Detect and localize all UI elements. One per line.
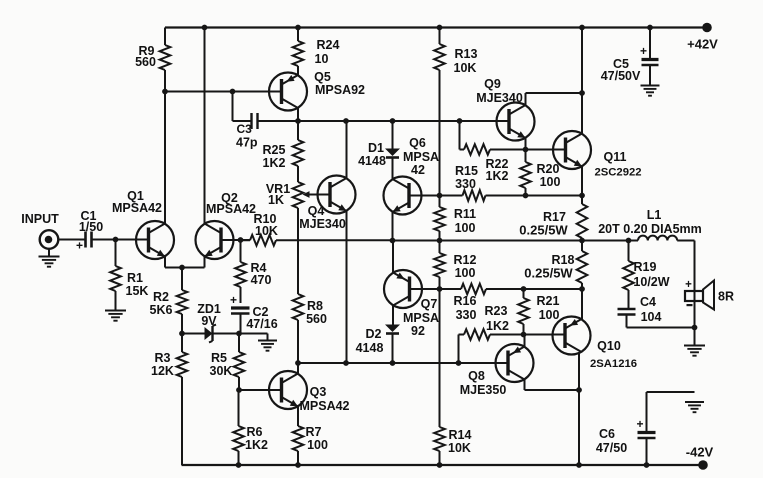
label Q2 [206,191,256,216]
node Q8 collector / Q10 collector column [576,387,582,393]
wire Q11 collector up to top rail [581,28,583,134]
svg-text:1K2: 1K2 [486,319,509,333]
svg-text:20T 0.20 DIA5mm: 20T 0.20 DIA5mm [598,222,702,236]
wire to C3 [233,120,252,122]
wire R9 node down to Q1 collector [164,92,166,224]
wire Q5 collector down [297,108,299,121]
svg-text:10K: 10K [255,224,278,238]
label Q10 [590,339,637,370]
label R25 value [263,143,286,170]
node speaker ground [692,325,698,331]
speaker 8R [685,279,714,328]
svg-text:MPSA42: MPSA42 [299,399,349,413]
wire Q11 emitter down [581,167,583,196]
node Q10 collector / bottom rail [576,462,582,468]
node Q11 emitter / R17 [579,193,585,199]
wire R9 node to Q5 base [165,91,282,93]
label R11 value [454,207,476,235]
wire D2 anode to lower bias rail [392,335,394,364]
svg-text:9V: 9V [201,314,217,328]
label C3 value [236,122,258,149]
label R24 value [315,38,340,66]
wire output rail middle [393,240,583,242]
node C6 / bottom rail [644,462,650,468]
svg-text:+: + [636,417,643,431]
node ZD1 / C2 / R5 / ground stub [236,331,242,337]
svg-text:R12: R12 [454,253,477,267]
node R6 / bottom rail [236,462,242,468]
wire D1 cathode to Q6 collector [392,159,394,180]
transistor Q11 [553,131,591,169]
svg-text:15K: 15K [126,284,149,298]
svg-text:0.25/5W: 0.25/5W [524,265,573,280]
label R8 value [306,299,327,326]
svg-text:R25: R25 [263,143,286,157]
wire R12 node down to R14 [439,289,441,427]
node R16 / R21 [521,286,527,292]
wire Q9 collector up and right [526,93,583,105]
label R1 value [126,271,149,298]
resistor R16 [440,288,462,290]
svg-text:D2: D2 [366,327,382,341]
svg-text:4148: 4148 [358,154,386,168]
node Q2 base / R4 / R10 [238,237,244,243]
svg-text:5K6: 5K6 [150,303,173,317]
node R9 / Q5 base line / Q1 collector [162,89,168,95]
wire upper bias line [298,120,510,122]
terminal -42V [698,460,708,470]
resistor R3 [181,334,183,353]
svg-text:+42V: +42V [687,36,718,51]
svg-text:1K2: 1K2 [263,156,286,170]
potentiometer VR1 [293,182,304,208]
wire Q8 emitter up [524,335,526,347]
label R19 value [633,260,669,289]
node R2 / ZD1 / R3 [179,331,185,337]
resistor R17 [581,196,583,205]
label Q3 [299,385,349,413]
resistor R10 [241,239,251,241]
node input / R1 [113,237,119,243]
label R9 value [135,44,156,69]
svg-text:R24: R24 [317,38,340,52]
svg-text:MPSA: MPSA [403,150,439,164]
node bias line / R22 drop [457,118,463,124]
wire C3 drop [232,92,234,122]
svg-text:MPSA42: MPSA42 [206,202,256,216]
label C4 value [640,295,661,324]
svg-text:Q5: Q5 [314,70,331,84]
node Q9 emitter / R20 / Q11 base [523,147,529,153]
svg-text:+: + [76,239,83,253]
svg-text:+: + [685,279,692,291]
label R17 value [519,210,568,238]
label Q4 [299,204,346,231]
node R17 / output rail / R18 [579,238,585,244]
wire output rail to L1 [582,240,638,242]
svg-text:Q9: Q9 [484,77,501,91]
label Q9 [476,77,523,105]
wire Q2 emitter down [204,257,206,268]
resistor R14 [434,427,445,451]
ground (input jack) [39,256,60,258]
resistor R12 [439,241,441,254]
svg-text:R23: R23 [485,304,508,318]
svg-text:10: 10 [315,52,329,66]
svg-text:R5: R5 [211,351,227,365]
label C6 value [596,427,627,455]
resistor R11 [439,196,441,208]
svg-text:100: 100 [539,308,560,322]
svg-text:47/50: 47/50 [596,441,627,455]
wire -42V bottom supply rail [182,464,704,466]
label Q7 [403,297,439,338]
svg-text:Q11: Q11 [604,150,627,164]
wire C3 to Q5 collector node [258,120,298,122]
svg-text:47/16: 47/16 [246,317,277,331]
terminal +42V [702,23,712,33]
node Q6 emitter / output rail [390,238,396,244]
svg-text:C3: C3 [237,122,253,136]
resistor R8 [293,294,304,320]
resistor R2 [181,268,183,291]
resistor R7 [293,426,304,451]
svg-text:MPSA: MPSA [403,311,439,325]
inductor L1 [638,236,677,241]
wire Q1 emitter to common node [165,267,205,269]
node top rail / R13 [437,25,443,31]
svg-text:MPSA42: MPSA42 [112,201,162,215]
svg-text:100: 100 [540,175,561,189]
ground (R1) [105,310,126,312]
svg-text:330: 330 [456,308,477,322]
svg-text:INPUT: INPUT [21,212,59,226]
node diff pair common emitters [179,265,185,271]
label R13 value [454,47,478,75]
node top rail / R24 [295,25,301,31]
transistor Q9 [497,103,535,141]
wire Q2 collector up to top rail [204,28,206,224]
node Q9 collector / Q11 collector column [579,90,585,96]
wire Q6 emitter down to output rail [392,212,394,241]
svg-text:1K2: 1K2 [245,438,268,452]
resistor R18 [581,241,583,252]
wire Q10 base lead [524,334,566,336]
svg-text:R19: R19 [634,260,657,274]
wire L1 to speaker corner [677,241,694,288]
svg-text:C6: C6 [599,427,615,441]
label R20 value [537,162,561,189]
svg-text:2SC2922: 2SC2922 [594,166,641,178]
node R7 / bottom rail [295,462,301,468]
capacitor C4 [618,290,636,328]
svg-text:MJE340: MJE340 [299,217,346,231]
wire Q9 emitter down [525,138,527,150]
transistor Q5 [269,73,307,111]
svg-text:R21: R21 [537,294,560,308]
wire Q4 emitter down to lower bias rail [346,211,348,363]
label Q11 [594,150,641,178]
wire C2 node to ground [239,333,268,335]
resistor R4 [240,240,242,262]
label VR1 value [266,182,290,207]
svg-text:0.25/5W: 0.25/5W [519,222,568,237]
node top rail / C5 [647,25,653,31]
label R7 value [306,425,328,452]
resistor R24 [297,28,299,42]
svg-text:MJE350: MJE350 [460,383,507,397]
resistor R20 [525,150,527,163]
svg-text:8R: 8R [718,289,734,303]
svg-text:+: + [230,293,237,307]
diode D2 (1N4148) [385,325,400,334]
svg-text:42: 42 [411,163,425,177]
wire D1 anode [392,121,394,149]
wire Q7 base lead [410,288,440,290]
svg-text:100: 100 [307,438,328,452]
wire VR1 bottom to R8 [297,208,299,294]
svg-text:47/50V: 47/50V [601,69,641,83]
label Q8 [460,369,507,397]
svg-text:104: 104 [641,310,662,324]
svg-text:R15: R15 [455,164,478,178]
svg-text:Q6: Q6 [409,136,426,150]
node R5 / Q3 base [236,387,242,393]
transistor Q10 [553,317,591,355]
svg-text:330: 330 [455,177,476,191]
label D1 [358,141,386,168]
label D2 [356,327,384,355]
svg-text:560: 560 [135,55,156,69]
wire lower bias rail [298,362,508,364]
resistor R1 [115,240,117,267]
label R16 value [454,294,477,322]
transistor Q2 [196,221,234,259]
svg-text:470: 470 [251,273,272,287]
svg-text:Q10: Q10 [597,339,621,353]
svg-text:-42V: -42V [686,444,714,459]
label R6 value [245,425,268,452]
transistor Q7 [384,270,422,308]
wire C1 to Q1 base [92,239,142,241]
resistor R21 [523,289,525,298]
wire jack stem [48,249,50,256]
svg-text:100: 100 [455,266,476,280]
label R21 value [537,294,560,322]
svg-text:R13: R13 [455,47,478,61]
transistor Q4 [318,176,356,214]
resistor R13 [439,28,441,45]
resistor R6 [238,390,240,426]
wire Q2 base lead [221,239,241,241]
wire Q3 base lead [239,389,282,391]
node top rail / Q2 collector [202,25,208,31]
wire +42V top supply rail [165,26,707,28]
ground (C6) [685,401,704,403]
label R2 value [150,290,173,317]
wire Q10 emitter up to R18 node [581,289,583,319]
wire top rail left corner down to R9 [164,28,166,46]
capacitor C6 (electrolytic) [636,392,655,465]
label R12 value [454,253,477,280]
node R13 / Q6 base / R15 / R11 [437,193,443,199]
wire R23 drop [458,335,460,364]
svg-text:560: 560 [306,312,327,326]
node R23 drop / lower bias rail [456,360,462,366]
node D2 / lower bias rail [390,360,396,366]
capacitor C3 [252,113,258,129]
svg-text:92: 92 [411,324,425,338]
svg-text:MPSA92: MPSA92 [315,83,365,97]
wire output rail (feedback line) [241,239,251,241]
node bias line / D1 [390,118,396,124]
label R22 value [486,157,509,183]
wire Q6 base lead [409,195,440,197]
label Q6 [403,136,439,177]
capacitor C2 (electrolytic) [230,293,250,333]
diode D1 (1N4148) [385,149,400,158]
svg-text:R16: R16 [454,294,477,308]
svg-text:R11: R11 [454,207,476,221]
wire C4 bottom to speaker ground node [627,327,695,329]
svg-text:10K: 10K [454,61,477,75]
svg-text:R1: R1 [127,271,143,285]
svg-text:R8: R8 [307,299,323,313]
svg-text:12K: 12K [151,364,174,378]
wire Q11 base lead [526,149,566,151]
resistor R23 [459,334,465,336]
wire Q1 emitter down [164,257,166,268]
svg-text:2SA1216: 2SA1216 [590,358,637,370]
capacitor C5 (electrolytic) [640,44,659,85]
resistor R15 [440,195,463,197]
label Q1 [112,189,162,215]
wire to speaker ground [694,328,696,346]
transistor Q3 [269,371,307,409]
resistor R22 [460,149,465,151]
label C2 value [246,305,277,331]
svg-text:1K: 1K [268,193,284,207]
wire C6 top to ground [647,391,695,393]
svg-text:R14: R14 [449,428,472,442]
svg-text:Q3: Q3 [310,385,327,399]
node R12 / Q7 base / R16 / R14 [437,286,443,292]
wire Q8 collector down and right [525,380,580,391]
label R10 value [254,212,278,238]
wire Q3 emitter down to R7 [297,407,299,427]
wire Q7 emitter up to output rail [392,241,394,273]
label R4 value [251,261,272,287]
svg-text:10/2W: 10/2W [633,275,669,289]
transistor Q8 [496,344,534,382]
svg-text:100: 100 [455,221,476,235]
node R21 / R23 / Q8 emitter / Q10 base [521,332,527,338]
label R23 value [485,304,509,333]
node R11 / output rail / R12 [437,238,443,244]
wire Q1 base lead [116,239,149,241]
capacitor C1 [84,232,87,248]
ground (speaker) [684,345,705,347]
svg-text:1K2: 1K2 [486,169,509,183]
node Q4 collector / bias line [343,118,349,124]
resistor R9 [160,45,171,70]
ground (C2 node) [258,340,277,342]
resistor R19 [628,241,630,262]
node Q5 base line / C3 drop [230,89,236,95]
wire Q7 collector down to D2 [392,306,394,325]
node R20 / R15 line [523,193,529,199]
node Q5 collector / R25 / bias line [295,118,301,124]
ground (C5) [641,85,660,87]
label ZD1 [197,302,221,328]
label L1 [598,208,702,236]
label R5 value [210,351,233,378]
node R14 / bottom rail [437,462,443,468]
zener diode ZD1 [182,325,239,343]
svg-text:C4: C4 [640,295,656,309]
svg-text:Q7: Q7 [421,297,438,311]
wire C5 from top rail [649,28,651,59]
wire Q3 collector up to bias rail [297,363,299,374]
node R18 / Q10 emitter [579,286,585,292]
resistor R5 [238,334,240,353]
label R18 value [524,253,574,281]
transistor Q6 [384,177,422,215]
wire jack to C1 [59,239,86,241]
node top rail / Q11 collector [579,25,585,31]
label C1 value [79,209,103,234]
svg-text:10K: 10K [448,441,471,455]
label R15 value [455,164,478,191]
svg-text:4148: 4148 [356,341,384,355]
wire R16 line to R18 node [524,288,583,290]
node Q4 emitter / lower bias rail [343,360,349,366]
svg-text:1/50: 1/50 [79,220,103,234]
wire Q4 collector up to bias line [346,121,348,178]
svg-text:L1: L1 [647,208,662,222]
svg-text:+: + [640,44,647,58]
label Q5 [314,70,365,97]
label R14 value [448,428,471,455]
resistor R25 [297,121,299,140]
transistor Q1 [136,221,174,259]
node R8 / Q3 collector / bias rail [295,360,301,366]
wire Q10 collector down to bottom rail [578,352,580,465]
svg-text:Q8: Q8 [468,369,485,383]
label R3 value [151,351,174,378]
label C5 value [601,57,641,83]
wire Q4 base lead with wiper arrow [303,191,331,198]
wire R15 line to Q11 emitter node [526,195,583,197]
svg-text:47p: 47p [236,136,258,150]
wire R22 drop [459,121,461,150]
svg-text:MJE340: MJE340 [476,91,523,105]
connector input jack [40,230,59,249]
node output rail / R19 [626,238,632,244]
svg-text:30K: 30K [210,364,233,378]
